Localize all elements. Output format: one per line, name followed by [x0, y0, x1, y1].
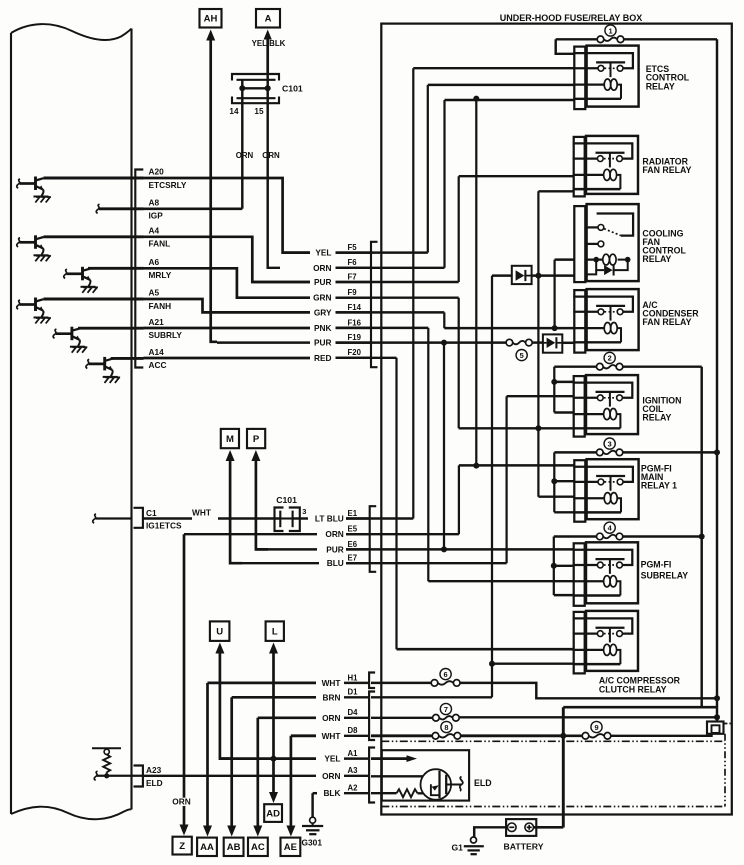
svg-text:ACC: ACC	[149, 360, 167, 370]
connector box M	[221, 429, 239, 448]
wire F7 left segment	[252, 281, 310, 283]
wire pin A20 row	[44, 177, 144, 180]
node dot on main-relay top wire	[473, 463, 479, 469]
resistor in ELD (zigzag)	[397, 789, 418, 797]
diode D2 symbol	[547, 338, 556, 348]
bus F19 to E6 (x=444)	[443, 343, 445, 550]
svg-text:E5: E5	[348, 525, 358, 534]
relay U6 PGM-FI main relay 1	[573, 467, 633, 482]
wire F20 into box to bus	[336, 357, 397, 359]
bus F9 to ignition-bottom (x=459)	[458, 298, 460, 429]
squiggle on ELD wire	[94, 771, 97, 780]
svg-text:U: U	[216, 627, 223, 638]
wire BLK to ground	[311, 793, 313, 817]
label ORN left	[236, 152, 253, 160]
wire fuse3 row right	[623, 451, 717, 453]
wire D4/fuse7 row	[371, 717, 432, 719]
svg-text:C101: C101	[282, 84, 303, 94]
arrowhead into AA	[203, 826, 212, 837]
relay U3 cooling fan control relay	[574, 206, 585, 282]
svg-text:IGP: IGP	[149, 211, 164, 221]
wire fuse2 row left	[554, 365, 596, 367]
svg-text:PNK: PNK	[314, 323, 332, 333]
wire E7 label segment	[346, 562, 369, 564]
svg-text:C101: C101	[276, 495, 297, 505]
node dot F19/bus444	[441, 340, 447, 346]
arrowhead into AE	[286, 826, 295, 837]
svg-text:PUR: PUR	[314, 338, 332, 348]
node dot fuse4 right	[699, 534, 705, 540]
wire fuse4 row left	[554, 535, 597, 537]
ELD pull-up circle	[104, 749, 109, 754]
node dot fuse6 right	[714, 695, 720, 701]
connector box AB	[224, 838, 244, 856]
wire WHT segment	[143, 517, 192, 519]
wire D4 label segment	[344, 717, 369, 719]
connector box A	[256, 9, 280, 28]
wire F16 into box to bus	[336, 327, 429, 329]
wire F7 label segment	[336, 281, 371, 283]
bus ignition-contact to E7 (x=506.6)	[505, 396, 507, 563]
svg-text:F9: F9	[348, 288, 358, 297]
wire fuse7 to bus	[460, 716, 717, 718]
transistor on ACC output	[86, 359, 89, 368]
svg-text:A14: A14	[149, 347, 165, 357]
wire fuse1 row right	[624, 38, 717, 40]
svg-text:D1: D1	[348, 688, 359, 697]
fuse 1	[604, 38, 617, 41]
bus diode1/D1 (x=492)	[491, 276, 493, 698]
svg-text:IG1ETCS: IG1ETCS	[146, 521, 182, 531]
arrowhead into AH	[206, 30, 215, 41]
wire F16 label segment	[336, 327, 371, 329]
wire F6 into box to bus	[336, 267, 445, 269]
svg-text:A21: A21	[149, 317, 165, 327]
pin C1 bracket	[134, 508, 143, 528]
fuse 9	[589, 734, 604, 737]
ELD output wire	[446, 783, 461, 785]
svg-text:G1: G1	[452, 842, 464, 852]
svg-text:ELD: ELD	[146, 778, 163, 788]
wire F6 label segment	[336, 267, 371, 269]
fuse 3	[603, 451, 616, 454]
bus fuse2/4 supply (x=701.7)	[700, 367, 702, 708]
svg-text:H1: H1	[348, 673, 359, 682]
svg-text:GRN: GRN	[313, 293, 331, 303]
chain stub to edge	[723, 723, 731, 725]
wire AB vertical from D1	[230, 697, 233, 826]
svg-text:CLUTCH RELAY: CLUTCH RELAY	[599, 684, 667, 694]
bus ETCS-bottom to F6 (x=444)	[443, 100, 445, 268]
svg-text:A8: A8	[149, 198, 160, 208]
connector box AD	[264, 804, 282, 822]
svg-text:F14: F14	[348, 303, 362, 312]
battery box	[506, 819, 536, 836]
wire E6 into box to subrelay top	[346, 548, 574, 550]
wire A8 end	[144, 207, 243, 210]
wire C101-15 down to F6 corner	[268, 97, 280, 268]
node dot L/A1/AD	[271, 756, 277, 762]
wire resistor to transistor	[418, 792, 439, 794]
node dot fuse3 right	[714, 449, 720, 455]
svg-text:ORN: ORN	[313, 263, 331, 273]
svg-text:F19: F19	[348, 333, 362, 342]
svg-text:2: 2	[608, 354, 612, 363]
wire F14 jog to condenser coil	[444, 327, 574, 329]
bus radiator-coil to F7 (x=459)	[458, 176, 460, 282]
bus radiator-bottom chain (x=538.5)	[537, 191, 539, 496]
wire E6 left segment	[256, 548, 317, 550]
wire subrelay contact	[554, 565, 575, 567]
connector C101 top bracket upper	[232, 74, 279, 81]
svg-text:WHT: WHT	[322, 678, 341, 688]
svg-text:BATTERY: BATTERY	[504, 841, 544, 851]
transistor on SUBRLY output	[53, 329, 56, 338]
ground G301 circle	[310, 817, 316, 823]
fuse 4	[603, 535, 616, 538]
wire battery bus to fuse9	[563, 734, 582, 737]
svg-text:L: L	[272, 627, 278, 638]
ELD box	[382, 750, 469, 800]
battery positive terminal	[525, 823, 534, 832]
wire D8 left segment	[291, 734, 316, 737]
svg-text:ETCSRLY: ETCSRLY	[149, 180, 187, 190]
relay U8 A/C compressor clutch relay	[573, 618, 633, 633]
chain line A (y=741)	[381, 740, 725, 742]
wire P vertical to E6	[256, 460, 268, 550]
wire D8/fuse8 row	[371, 734, 432, 737]
wire A3 into ELD	[371, 775, 439, 777]
wire fuse9 to connector	[611, 734, 712, 736]
wire F20 label segment	[336, 357, 371, 359]
svg-text:3: 3	[608, 439, 612, 448]
svg-text:F20: F20	[348, 348, 362, 357]
arrowhead into L	[269, 643, 278, 654]
connector C101 pin 14	[241, 80, 243, 97]
svg-text:AC: AC	[251, 842, 265, 853]
wire pin A14 row	[111, 357, 144, 360]
wire F14 label segment	[336, 311, 371, 313]
connector C101 middle box	[275, 508, 284, 532]
diode D1 symbol	[516, 270, 525, 280]
connector box Z	[173, 837, 192, 855]
wire ignition bottom	[459, 427, 575, 429]
svg-text:A: A	[265, 14, 272, 25]
fuse 2	[603, 365, 616, 368]
svg-text:A2: A2	[348, 784, 359, 793]
svg-text:AH: AH	[204, 14, 218, 25]
wire F5 left segment	[283, 251, 310, 253]
svg-text:SUBRELAY: SUBRELAY	[641, 571, 689, 581]
wire main relay contact	[554, 480, 574, 482]
wire A14/RED straight	[144, 357, 311, 360]
wire F7 into box to bus	[336, 281, 459, 283]
chain line C (y=806.5)	[381, 806, 725, 808]
wire E1 into box to bus	[346, 517, 413, 519]
svg-text:AE: AE	[284, 842, 297, 853]
wire F5 label segment	[336, 251, 371, 253]
wire D1 left segment	[232, 696, 316, 699]
wire F19/fuse5 line	[336, 341, 507, 343]
wire L vertical through A1 to AD	[272, 652, 275, 759]
wire ignition top feed	[554, 381, 574, 383]
svg-text:F6: F6	[348, 258, 358, 267]
wire ignition coil	[554, 411, 574, 413]
svg-text:E1: E1	[348, 509, 358, 518]
node dot F14/cooling bus	[552, 325, 558, 331]
connector C101 top bracket lower	[232, 97, 279, 104]
svg-text:E7: E7	[348, 554, 358, 563]
wire ELD internal	[97, 775, 143, 777]
wire A1 left segment	[220, 757, 316, 760]
wire AH vertical to F19	[211, 39, 217, 342]
wire diode1 input	[492, 274, 512, 276]
ELD gate arrow	[432, 785, 439, 790]
bus ETCS-coil to F5 (x=428)	[427, 85, 429, 253]
svg-text:A6: A6	[149, 257, 160, 267]
node dot ignition bottom	[535, 425, 541, 431]
svg-text:ORN: ORN	[322, 771, 340, 781]
bus F14 jog (x=444)	[443, 312, 445, 328]
connector box U	[210, 621, 230, 641]
arrowhead into M	[226, 450, 235, 461]
wire F9 into box to bus	[336, 296, 459, 298]
svg-text:15: 15	[254, 107, 264, 116]
wire Z vertical (ORN from E5)	[183, 534, 186, 825]
wire ignition contact	[507, 395, 575, 397]
node dot D4 right	[714, 714, 720, 720]
svg-text:WHT: WHT	[322, 731, 341, 741]
wire fuse1 row left	[556, 38, 597, 40]
fuse 8	[439, 734, 454, 737]
relay U1 ETCS control relay	[573, 53, 633, 68]
wire A6 to GRN corner	[144, 268, 311, 297]
label YEL/BLK	[250, 40, 286, 48]
relay U7 PGM-FI subrelay	[573, 550, 633, 565]
relay U2 radiator fan relay	[573, 143, 633, 158]
wire D1 into box	[371, 696, 492, 698]
svg-text:ORN: ORN	[325, 529, 343, 539]
node dot E6/bus444	[441, 546, 447, 552]
chain vertical right	[724, 734, 726, 807]
wire pin A4 row	[44, 235, 144, 238]
pin A23 bracket	[134, 766, 143, 787]
wire fuse4 row right	[623, 535, 702, 537]
svg-text:ORN: ORN	[236, 151, 254, 160]
squiggle on IGP wire	[96, 204, 99, 213]
wire IG1ETCS internal	[96, 517, 132, 519]
svg-text:FANL: FANL	[149, 239, 171, 249]
svg-text:PGM-FI: PGM-FI	[641, 560, 672, 570]
wire C101 out	[293, 517, 308, 519]
svg-text:RELAY: RELAY	[642, 254, 671, 264]
wire A vertical (YEL/BLK) to C101	[266, 39, 269, 74]
connector C101 pin 15	[266, 74, 268, 97]
ELD transistor bar 1	[438, 771, 440, 798]
svg-text:YEL: YEL	[315, 248, 331, 258]
svg-text:C1: C1	[146, 508, 157, 518]
connector E bracket	[370, 506, 377, 572]
svg-text:AD: AD	[266, 808, 280, 819]
wire M vertical to E7	[230, 460, 242, 564]
svg-text:14: 14	[229, 107, 239, 116]
fuse 5	[513, 341, 526, 344]
node dot diode1 output	[535, 273, 541, 279]
connector terminal box	[707, 722, 724, 734]
wire U vertical to A1/YEL	[220, 652, 232, 759]
wire AC vertical from D4	[256, 718, 259, 827]
connector box AC	[248, 838, 268, 856]
ECM box wavy bottom edge	[11, 807, 132, 820]
wire WHT to C101	[218, 517, 280, 519]
transistor on ETCSRLY output	[17, 179, 20, 188]
ECM A-connector bracket	[135, 170, 143, 368]
ELD gate box	[431, 784, 440, 795]
svg-text:1: 1	[608, 26, 612, 35]
connector A bracket	[369, 748, 375, 803]
wire main relay coil	[538, 495, 574, 497]
svg-text:ORN: ORN	[262, 151, 280, 160]
node dot subrelay contact	[551, 563, 557, 569]
wire H1 label segment	[344, 682, 369, 684]
bus fuse3 (x=554.3)	[553, 452, 555, 512]
svg-text:F16: F16	[348, 318, 362, 327]
ground G1 circle	[471, 837, 477, 843]
wire E7 left segment	[230, 562, 319, 564]
svg-text:RED: RED	[314, 353, 332, 363]
fuse 7	[439, 716, 452, 719]
wire F9 label segment	[336, 296, 371, 298]
connector box L	[266, 621, 284, 641]
battery negative terminal	[508, 823, 517, 832]
wire H1 left segment	[208, 682, 317, 685]
wire fuse2 row right	[623, 365, 702, 367]
bus cooling-coil to F14 line (x=554.5)	[553, 260, 555, 329]
wire E6 label segment	[346, 548, 369, 550]
svg-text:6: 6	[444, 670, 448, 679]
svg-text:P: P	[253, 434, 260, 445]
wire diode2 to condenser relay	[562, 342, 574, 344]
fuse 6	[438, 681, 454, 684]
diode D1 box	[512, 266, 532, 284]
node dot ignition top feed	[551, 379, 557, 385]
wire AE vertical from D8	[290, 736, 293, 827]
svg-text:GRY: GRY	[314, 307, 332, 317]
wire E5 label segment	[346, 533, 369, 535]
svg-text:AB: AB	[227, 842, 241, 853]
C101 pin link dots	[239, 85, 245, 91]
svg-text:3: 3	[302, 507, 306, 516]
bus fuse1 entry (x=555.7)	[556, 39, 575, 54]
wire radiator bottom	[538, 190, 574, 192]
wire pin A21 row	[78, 327, 144, 330]
svg-text:FANH: FANH	[149, 301, 172, 311]
svg-text:A4: A4	[149, 226, 160, 236]
wire battery to ground	[474, 827, 507, 837]
transistor on FANH output	[17, 300, 20, 309]
svg-text:ORN: ORN	[322, 713, 340, 723]
wire D1 label segment	[344, 696, 369, 698]
connector box P	[247, 429, 265, 448]
svg-text:D8: D8	[348, 726, 359, 735]
svg-text:SUBRLY: SUBRLY	[149, 330, 183, 340]
wire A5 to GRY corner	[144, 299, 311, 312]
wire cooling coil pin	[555, 258, 575, 260]
svg-text:ELD: ELD	[474, 778, 492, 788]
wire A20 to YEL corner	[144, 178, 311, 253]
relay U4 A/C condenser fan relay	[573, 297, 633, 312]
svg-text:UNDER-HOOD FUSE/RELAY BOX: UNDER-HOOD FUSE/RELAY BOX	[500, 13, 643, 23]
wire A1 into box with arrow	[371, 757, 408, 760]
wire E1 label segment	[346, 517, 369, 519]
wire A3 label segment	[344, 775, 369, 777]
svg-text:D4: D4	[348, 708, 359, 717]
wire pin A8 row	[99, 207, 144, 210]
svg-text:LT BLU: LT BLU	[315, 514, 344, 524]
connector D bracket	[369, 692, 375, 741]
svg-text:BRN: BRN	[323, 692, 341, 702]
connector box AE	[281, 838, 301, 856]
wire A3 row from A23	[144, 775, 317, 777]
svg-text:FAN RELAY: FAN RELAY	[642, 165, 691, 175]
wire E5 into box to bus	[346, 533, 459, 535]
svg-text:RELAY: RELAY	[646, 81, 675, 91]
ELD pull-up supply stub	[92, 747, 121, 749]
svg-text:7: 7	[444, 705, 448, 714]
wire main relay top	[459, 464, 574, 466]
wire pin A5 row	[44, 298, 144, 301]
svg-text:AA: AA	[200, 842, 214, 853]
svg-text:A20: A20	[149, 167, 165, 177]
svg-text:RELAY 1: RELAY 1	[641, 481, 677, 491]
wire F5 into box to bus	[336, 251, 428, 253]
wire fuse8 to battery bus	[461, 734, 563, 737]
connector H1 bracket	[369, 673, 375, 689]
wire pin A6 row	[88, 267, 144, 270]
wire compressor coil	[397, 648, 575, 651]
bus ETCS-dot to main-top dot (x=476)	[475, 99, 477, 466]
arrowhead into A	[263, 30, 272, 41]
wire AD drop	[272, 759, 275, 793]
wire A2 label segment	[344, 792, 369, 794]
connector F bracket	[371, 242, 378, 367]
bus fuse4 (x=553.8)	[553, 537, 555, 596]
ECM box left edge	[10, 33, 12, 814]
svg-text:PUR: PUR	[314, 277, 332, 287]
wire main relay bottom	[554, 511, 574, 513]
svg-text:RELAY: RELAY	[642, 412, 671, 422]
svg-text:A3: A3	[348, 766, 359, 775]
label ORN near Z	[173, 798, 190, 806]
connector C101 top strip lower	[237, 97, 276, 99]
connector box AH	[200, 9, 222, 28]
ground G301 bars	[312, 823, 314, 826]
bus fuse1/3/6 output (x=717)	[716, 39, 718, 721]
transistor on MRLY output	[64, 269, 67, 278]
bus battery feed (x=563.3)	[562, 707, 565, 827]
transistor on FANL output	[17, 238, 20, 247]
wire D8 label segment	[344, 735, 369, 737]
bus F16 to subrelay coil (x=428)	[427, 328, 429, 581]
svg-text:G301: G301	[302, 837, 323, 847]
wire diode1 output to cooling	[532, 274, 575, 276]
svg-text:A1: A1	[348, 749, 359, 758]
wire F19 label segment	[336, 341, 371, 343]
svg-text:BLU: BLU	[327, 558, 344, 568]
wire fuse5 to diode2	[532, 341, 543, 343]
svg-text:A23: A23	[146, 765, 162, 775]
svg-text:WHT: WHT	[192, 508, 211, 518]
